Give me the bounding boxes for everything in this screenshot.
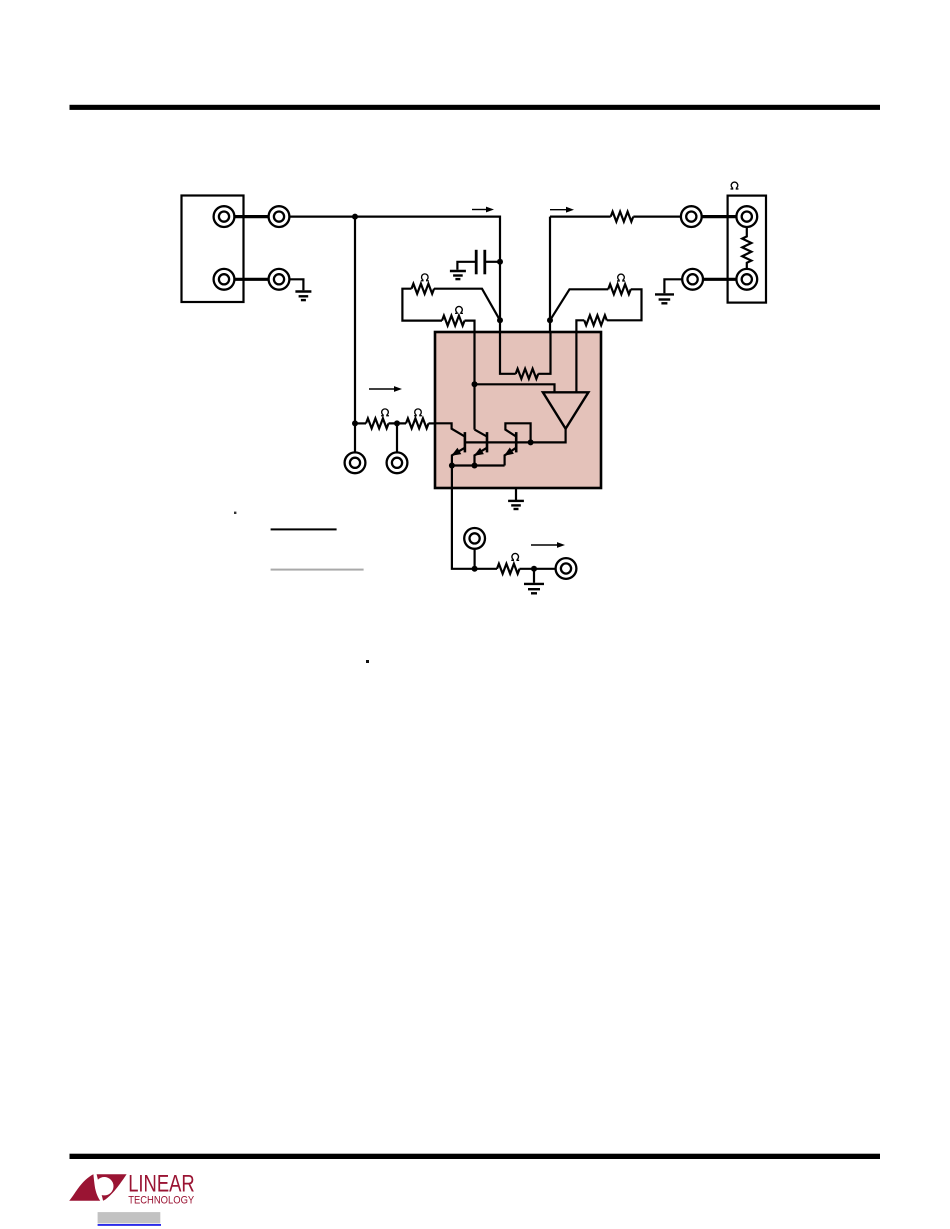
wire divider ground stem bbox=[533, 569, 535, 583]
transistor Q2 collector bbox=[475, 430, 488, 437]
node emitter rail 1 bbox=[449, 463, 455, 469]
terminal VOUT bbox=[556, 558, 577, 579]
wire R9 to IC edge bbox=[429, 422, 437, 424]
label R10 value bbox=[511, 553, 519, 560]
label R4 value bbox=[455, 306, 463, 313]
transistor Q3 base bar bbox=[515, 432, 518, 452]
terminal G bbox=[736, 269, 757, 290]
stray period dot 2 bbox=[366, 660, 369, 663]
resistor R3 with leads and diagonal to force node bbox=[412, 284, 435, 294]
wire R6 vertical redraw inside box bbox=[575, 331, 577, 392]
top rule bbox=[70, 105, 881, 110]
wire sense branch to R1 bbox=[550, 216, 611, 218]
wire C1 right plate to node bbox=[485, 261, 500, 263]
wire corner to R10 bbox=[475, 568, 497, 570]
wire diagonal from sense node to R5 bbox=[550, 289, 608, 320]
wire R4 right lead into IC bbox=[465, 321, 475, 430]
transistor Q1 base bar bbox=[464, 432, 467, 452]
transistor Q1 emitter bbox=[452, 448, 465, 466]
ground (C1) bbox=[450, 271, 466, 279]
terminal A bbox=[214, 206, 235, 227]
wire internal rail right bbox=[538, 331, 550, 374]
wire R3 right lead diagonal bbox=[434, 289, 500, 321]
ground (IC substrate) bbox=[508, 500, 524, 502]
wire trim terminal stems bbox=[354, 423, 356, 452]
wire link E-F bbox=[691, 215, 747, 218]
transistor Q1 collector bbox=[435, 423, 465, 436]
label R9 value bbox=[414, 409, 422, 416]
terminal output sense bbox=[464, 528, 485, 549]
wire B to node bbox=[290, 216, 355, 218]
svg-text:TECHNOLOGY: TECHNOLOGY bbox=[128, 1194, 194, 1206]
terminals (double circles) bbox=[214, 206, 758, 579]
fraction bar (black) bbox=[271, 528, 337, 530]
op-amp U1 bbox=[543, 392, 589, 428]
current arrows bbox=[369, 207, 574, 548]
wire feedback node to op-amp input 1 bbox=[475, 384, 555, 392]
logo LT mark left swoosh bbox=[69, 1174, 100, 1201]
ground (DVM low) bbox=[295, 292, 311, 301]
wire internal rail left (redraw over box) bbox=[500, 331, 516, 374]
wire sense branch down bbox=[549, 217, 551, 374]
transistor Q3 emitter arrowhead bbox=[505, 448, 513, 455]
wire link H-G bbox=[693, 278, 747, 281]
wire top rail and force branch down bbox=[355, 217, 500, 374]
wire R5 right lead down bbox=[607, 289, 642, 320]
resistor R7 internal bbox=[516, 369, 539, 379]
logo LT mark right swoosh bbox=[97, 1174, 127, 1201]
resistor R4 bbox=[442, 316, 465, 326]
wire node to R8 bbox=[355, 422, 366, 424]
transistor Q2 emitter bbox=[475, 448, 488, 466]
node output stem bbox=[472, 566, 478, 572]
wire IC ground stem bbox=[515, 488, 517, 500]
node trim rail 2 bbox=[394, 420, 400, 426]
terminal trim 2 bbox=[387, 452, 408, 473]
wire emitter rail down to output corner bbox=[452, 466, 475, 569]
IC U1 shaded box bbox=[435, 332, 601, 488]
terminal C bbox=[214, 269, 235, 290]
wire R6 left lead down to op-amp input bbox=[576, 320, 584, 392]
node Q3 collector to base rail bbox=[528, 439, 534, 445]
node emitter rail 2 bbox=[472, 463, 478, 469]
value labels bbox=[381, 182, 738, 560]
current arrow 4 bbox=[531, 542, 565, 548]
link underline bbox=[98, 1224, 161, 1226]
label R2 value bbox=[731, 182, 739, 189]
wire D to ground bbox=[290, 279, 303, 290]
node trim rail 1 bbox=[352, 420, 358, 426]
node force/R3 bbox=[497, 317, 503, 323]
wire R10 to VOUT terminal bbox=[520, 568, 556, 570]
transistor Q2 emitter arrowhead bbox=[475, 449, 483, 456]
resistor R5 bbox=[608, 284, 631, 294]
bottom rule bbox=[70, 1154, 881, 1159]
right load resistor branch: wire H to ground bbox=[664, 279, 682, 293]
label R3 value bbox=[421, 274, 429, 281]
wire R3 left lead down to R4 bbox=[402, 289, 442, 321]
transistor Q3 collector diode hook bbox=[505, 423, 530, 442]
resistor R8 bbox=[366, 418, 389, 428]
wire C1 left plate to ground bbox=[457, 262, 476, 270]
Linear Technology logo bbox=[69, 1171, 195, 1207]
node top rail at B branch bbox=[352, 214, 358, 220]
terminal B bbox=[269, 206, 290, 227]
node feedback bbox=[472, 381, 478, 387]
wire R1 to terminal E bbox=[633, 216, 681, 218]
link placeholder box bbox=[98, 1212, 161, 1223]
terminal H bbox=[682, 269, 703, 290]
wire R4 vertical redraw inside box bbox=[473, 331, 475, 430]
terminal F bbox=[736, 206, 757, 227]
wire output terminal stem bbox=[474, 549, 476, 569]
node capacitor junction bbox=[497, 259, 503, 265]
DVM box bbox=[182, 196, 244, 303]
ground (output divider) bbox=[524, 584, 544, 593]
wire link C-D bbox=[224, 278, 279, 281]
load box bbox=[728, 196, 766, 303]
label R5 value bbox=[617, 274, 625, 281]
transistor Q1 emitter arrowhead bbox=[453, 449, 461, 456]
label R8 value bbox=[381, 409, 389, 416]
terminal trim 1 bbox=[345, 452, 366, 473]
logo LT mark white ball bbox=[95, 1177, 113, 1195]
fraction bar (gray) bbox=[271, 569, 364, 571]
capacitor C1 plates bbox=[476, 250, 485, 274]
resistor R10 bbox=[497, 564, 520, 574]
wire left rail down bbox=[354, 217, 356, 424]
junction dots bbox=[352, 214, 553, 572]
transistor Q3 emitter bbox=[505, 448, 517, 466]
wire op-amp output to base rail bbox=[465, 429, 566, 443]
node sense/R5 bbox=[547, 317, 553, 323]
node divider ground bbox=[531, 566, 537, 572]
wire between R8 and R9 bbox=[389, 422, 407, 424]
wire link A-B bbox=[224, 215, 279, 218]
terminal D bbox=[269, 269, 290, 290]
resistor R6 bbox=[584, 315, 607, 325]
transistor Q2 base bar bbox=[486, 432, 489, 452]
ground (load return) bbox=[655, 294, 674, 303]
wire emitter rail bbox=[452, 464, 505, 466]
resistor R1 bbox=[611, 212, 634, 222]
current arrow 1 bbox=[472, 207, 494, 213]
terminal E bbox=[681, 206, 702, 227]
resistor R2 load vertical bbox=[742, 228, 751, 269]
stray period dot 1 bbox=[234, 512, 236, 514]
current arrow 2 bbox=[550, 207, 574, 213]
resistor R9 bbox=[406, 418, 429, 428]
current arrow 3 bbox=[369, 386, 402, 392]
